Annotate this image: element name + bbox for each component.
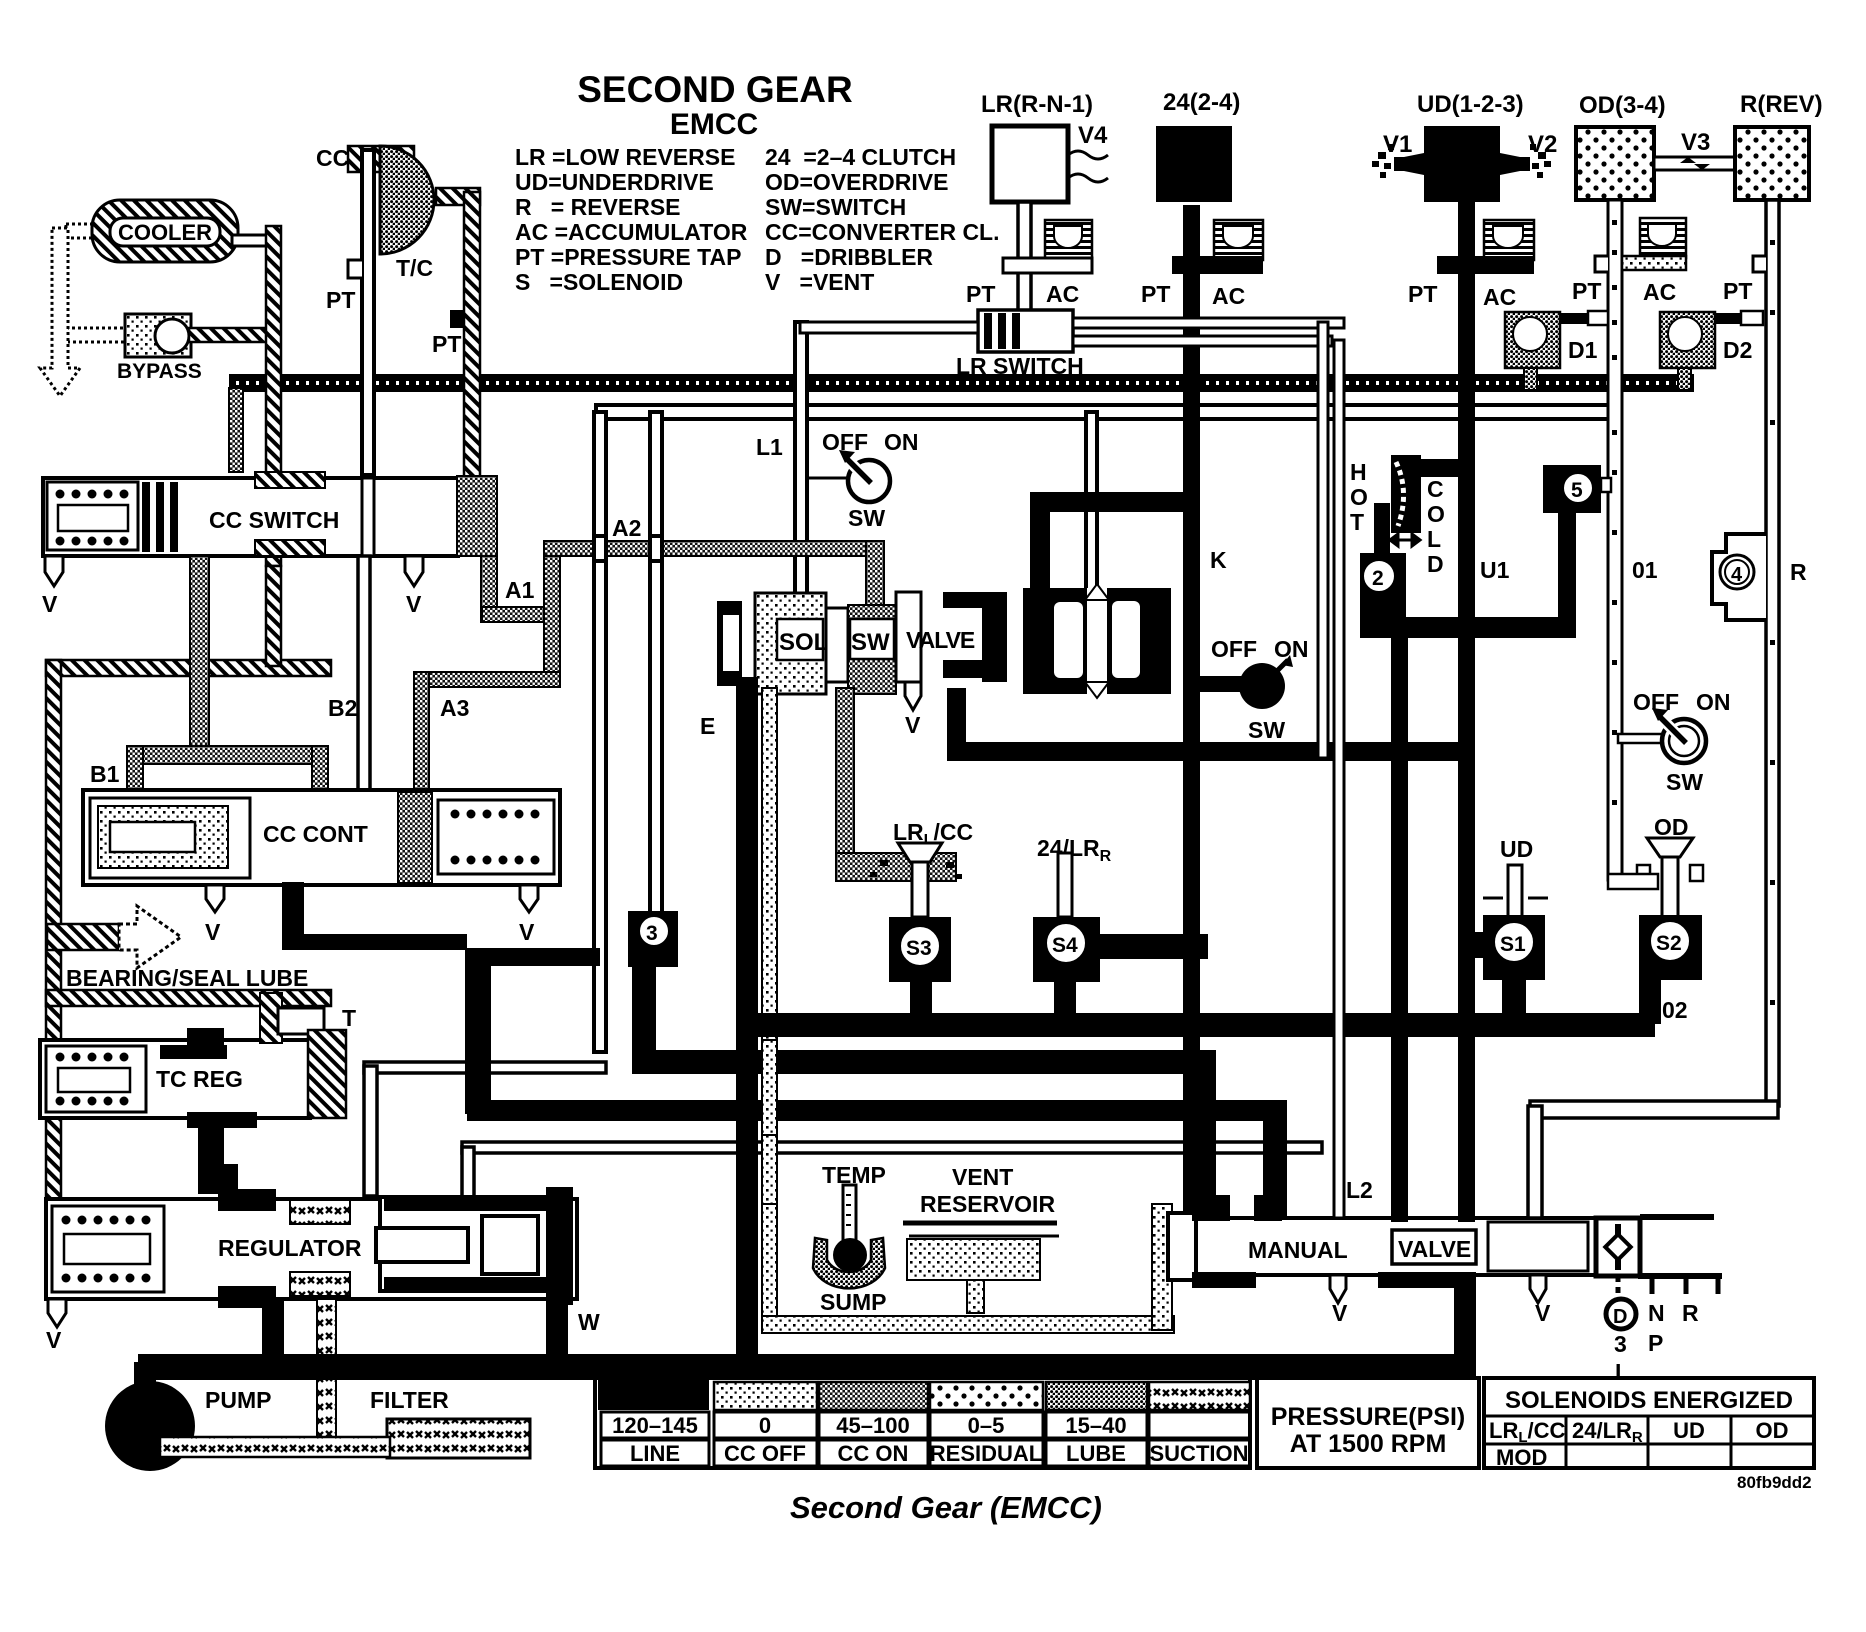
wire hatched elbow CC to T/C	[348, 146, 414, 172]
svg-text:P: P	[1648, 1330, 1663, 1356]
wire W output to pump bus	[546, 1299, 568, 1357]
svg-text:UD=UNDERDRIVE: UD=UNDERDRIVE	[515, 169, 714, 195]
svg-text:V: V	[519, 919, 535, 945]
component LR SWITCH	[978, 310, 1073, 352]
accumulator AC (OD)	[1640, 218, 1686, 258]
svg-text:UD(1-2-3): UD(1-2-3)	[1417, 91, 1524, 118]
accumulator AC (LR)	[1045, 220, 1092, 260]
wire S2 output down-left	[1639, 980, 1661, 1024]
pin pressure tap PT on CC pipe	[348, 260, 362, 278]
component thermometer	[843, 1185, 856, 1243]
svg-text:AC: AC	[1483, 284, 1516, 310]
component solenoid valve assembly SOL SW VALVE	[717, 601, 742, 686]
component OD clutch box (dotted)	[1576, 127, 1654, 200]
wire A2 checker line to solenoid valve	[544, 541, 880, 556]
svg-text:PT: PT	[1141, 281, 1170, 307]
svg-text:24 =2–4 CLUTCH: 24 =2–4 CLUTCH	[765, 144, 956, 170]
svg-text:4: 4	[1731, 564, 1743, 586]
wire selector top line	[1640, 1214, 1714, 1220]
svg-text:PT: PT	[966, 281, 995, 307]
wire R column white pipe down	[1766, 200, 1779, 1106]
svg-text:45–100: 45–100	[836, 1413, 909, 1438]
svg-text:T: T	[1350, 509, 1364, 535]
wire V3 neck between OD and R boxes	[1654, 157, 1735, 170]
wire main pump pressure bus (thick black)	[138, 1354, 1476, 1380]
wire Z line thin pipe to CC CONT loop	[364, 1062, 606, 1073]
svg-text:BEARING/SEAL LUBE: BEARING/SEAL LUBE	[66, 965, 308, 991]
wire Y port vertical	[462, 1147, 474, 1209]
svg-text:SW=SWITCH: SW=SWITCH	[765, 194, 906, 220]
svg-text:B2: B2	[328, 695, 357, 721]
component valve block right (spools)	[1023, 588, 1171, 694]
svg-text:ON: ON	[1274, 636, 1309, 662]
wire collector bus E/S3/S4/S1/S2 outputs	[738, 1013, 1655, 1037]
wire S1 output down	[1502, 980, 1526, 1024]
svg-text:OD(3-4): OD(3-4)	[1579, 92, 1666, 119]
wire S4 output right to K line	[1100, 934, 1208, 959]
svg-text:2: 2	[1372, 567, 1384, 590]
svg-text:AT 1500 RPM: AT 1500 RPM	[1290, 1430, 1447, 1458]
svg-text:VENT: VENT	[952, 1164, 1013, 1190]
svg-text:AC: AC	[1046, 281, 1079, 307]
svg-text:SW: SW	[1666, 769, 1703, 795]
svg-text:CC OFF: CC OFF	[724, 1441, 806, 1466]
svg-text:PT: PT	[326, 287, 355, 313]
svg-text:LINE: LINE	[630, 1441, 680, 1466]
component CC SWITCH valve	[43, 478, 458, 556]
wire dotted feeder from bus down to CC SWITCH	[229, 388, 243, 472]
solenoid S1	[1508, 865, 1522, 917]
svg-text:S =SOLENOID: S =SOLENOID	[515, 269, 683, 295]
vent V below CC SWITCH right	[405, 556, 423, 586]
wire node5 stub to 01 column	[1601, 478, 1611, 492]
svg-text:COOLER: COOLER	[118, 220, 212, 245]
svg-text:S3: S3	[906, 937, 932, 960]
wire LR SWITCH left pipe to L1	[800, 322, 978, 333]
svg-text:T/C: T/C	[396, 255, 433, 281]
svg-text:S1: S1	[1500, 933, 1526, 956]
svg-text:W: W	[578, 1309, 600, 1335]
wire secondary bus (white pipe)	[596, 405, 1612, 419]
svg-text:K: K	[1210, 547, 1227, 573]
component BEARING/SEAL LUBE arrow	[47, 924, 119, 950]
svg-text:15–40: 15–40	[1065, 1413, 1126, 1438]
svg-text:H: H	[1350, 459, 1367, 485]
wire main line-pressure bus (dark, speckled)	[229, 374, 1694, 392]
component TC REG right hatched block	[308, 1030, 346, 1118]
svg-text:PT: PT	[1572, 278, 1601, 304]
wire CC CONT output black pipe to loop	[282, 882, 304, 950]
wire white pipe from bus2 down to valve block right	[1086, 412, 1097, 590]
vent V below valve assembly	[905, 682, 921, 710]
wire E thick black line down	[736, 677, 758, 1367]
svg-text:SW: SW	[1248, 717, 1285, 743]
wire hatched pipe bypass to vertical	[189, 328, 269, 342]
svg-text:R = REVERSE: R = REVERSE	[515, 194, 681, 220]
svg-text:TC REG: TC REG	[156, 1066, 243, 1092]
svg-text:80fb9dd2: 80fb9dd2	[1737, 1473, 1812, 1492]
svg-text:D1: D1	[1568, 337, 1598, 363]
component reservoir tank	[903, 1221, 1057, 1226]
svg-text:V: V	[42, 591, 58, 617]
svg-text:V =VENT: V =VENT	[765, 269, 874, 295]
node 4 bracket on R line	[1712, 534, 1766, 620]
wire OD/01 column (dotted pipe)	[1608, 200, 1622, 880]
svg-text:RESIDUAL: RESIDUAL	[930, 1441, 1042, 1466]
svg-text:OD=OVERDRIVE: OD=OVERDRIVE	[765, 169, 948, 195]
pin PT tap on R column	[1753, 256, 1766, 272]
component REGULATOR valve	[46, 1199, 577, 1299]
wire stipple pipe down to reservoir	[762, 688, 777, 1208]
svg-text:MOD: MOD	[1496, 1445, 1547, 1470]
svg-text:SW: SW	[848, 505, 885, 531]
wire suction strip pump to filter	[160, 1437, 390, 1457]
component CC SWITCH right checker block	[457, 476, 497, 556]
svg-text:5: 5	[1571, 479, 1583, 502]
svg-text:0–5: 0–5	[968, 1413, 1005, 1438]
svg-text:AC: AC	[1643, 279, 1676, 305]
svg-text:V4: V4	[1078, 122, 1108, 149]
wire node3 output black L (line C)	[632, 967, 656, 1074]
wire dotted pipe top to cooler	[66, 224, 96, 238]
component T connector white box	[278, 1008, 324, 1034]
svg-text:O: O	[1350, 484, 1368, 510]
node 2	[1416, 459, 1458, 477]
node 5	[1543, 465, 1601, 513]
svg-text:3: 3	[1614, 1331, 1627, 1357]
wire checker pipe SW section down to S3 funnel	[836, 688, 854, 868]
svg-text:V3: V3	[1681, 129, 1710, 156]
wire CC white pipe down to CC SWITCH	[362, 150, 374, 475]
accumulator AC (UD)	[1484, 220, 1534, 260]
svg-text:SOL: SOL	[779, 629, 828, 656]
component MANUAL VALVE	[1168, 1218, 1638, 1275]
svg-text:O: O	[1427, 501, 1445, 527]
component COOLER	[92, 200, 238, 262]
wire stipple pipe overpass	[762, 1040, 777, 1135]
svg-text:V1: V1	[1383, 131, 1412, 158]
svg-text:CC: CC	[316, 145, 349, 171]
svg-text:PRESSURE(PSI): PRESSURE(PSI)	[1271, 1403, 1465, 1431]
dribbler D2	[1660, 312, 1715, 368]
svg-text:UD: UD	[1500, 836, 1533, 862]
solenoid S4	[1058, 853, 1072, 917]
wire vertical white pipe to node 3	[650, 412, 662, 914]
wire node2 line down to manual valve	[1391, 630, 1408, 1222]
wire hatched bearing lube pipe	[46, 990, 331, 1006]
wire Z port vertical	[364, 1066, 377, 1196]
svg-text:B1: B1	[90, 761, 120, 787]
pin pressure tap PT on T/C vertical	[450, 310, 465, 328]
svg-text:LR(R-N-1): LR(R-N-1)	[981, 91, 1093, 118]
wire thin pipe down (ends at valve loop)	[1318, 322, 1328, 758]
svg-text:AC: AC	[1212, 283, 1245, 309]
svg-text:R: R	[1682, 1300, 1699, 1326]
component manual valve black ports	[1192, 1195, 1476, 1358]
wire L1 white pipe down to solenoid valve	[795, 322, 807, 594]
svg-text:PT: PT	[432, 331, 461, 357]
wire LR SWITCH right pipes	[1073, 318, 1344, 328]
svg-text:V: V	[1332, 1300, 1348, 1326]
wire suction xhatch vertical	[317, 1299, 336, 1439]
svg-text:OFF: OFF	[1211, 636, 1257, 662]
wire A1 checker pipe from CC SWITCH to junction	[481, 556, 497, 622]
svg-text:CC=CONVERTER CL.: CC=CONVERTER CL.	[765, 219, 1000, 245]
component R clutch box (dotted)	[1735, 127, 1809, 200]
component 24 clutch box (black)	[1156, 126, 1232, 202]
component CC CONT loop black channel	[465, 948, 491, 1114]
svg-text:U1: U1	[1480, 557, 1510, 583]
svg-text:120–145: 120–145	[612, 1413, 698, 1438]
component vent reservoir container	[762, 1204, 777, 1330]
wire black loop valve top to K line	[1030, 492, 1198, 592]
svg-text:D: D	[1613, 1306, 1627, 1328]
svg-text:FILTER: FILTER	[370, 1387, 449, 1413]
wire Y line thin pipe across page	[462, 1142, 1322, 1153]
wire B2 pipe down to CC CONT	[358, 556, 370, 792]
component check valve box	[1596, 1218, 1640, 1276]
svg-text:VALVE: VALVE	[1398, 1236, 1471, 1262]
svg-text:BYPASS: BYPASS	[117, 360, 202, 383]
svg-text:L: L	[1427, 526, 1441, 552]
svg-text:L2: L2	[1346, 1177, 1373, 1203]
svg-text:OD: OD	[1654, 814, 1689, 840]
svg-text:CC SWITCH: CC SWITCH	[209, 507, 339, 533]
wire A3 checker line left then down to CC CONT	[414, 672, 560, 687]
svg-text:PUMP: PUMP	[205, 1387, 271, 1413]
wire K thick line (24 clutch) down to manual valve	[1183, 205, 1200, 1227]
wire dotted pipe left of cooler with down arrow	[40, 228, 80, 396]
svg-text:LR SWITCH: LR SWITCH	[956, 353, 1084, 379]
svg-text:A2: A2	[612, 515, 641, 541]
component UD clutch box (black)	[1424, 126, 1500, 202]
svg-text:D2: D2	[1723, 337, 1752, 363]
selector D circle	[1616, 1276, 1621, 1300]
svg-text:PT =PRESSURE TAP: PT =PRESSURE TAP	[515, 244, 741, 270]
svg-text:EMCC: EMCC	[670, 108, 758, 141]
component regulator right spool	[380, 1197, 550, 1291]
svg-text:ON: ON	[884, 429, 919, 455]
solenoids energized table	[1484, 1378, 1814, 1468]
vent V below CC CONT left	[206, 885, 224, 912]
svg-text:S4: S4	[1052, 934, 1078, 957]
svg-text:V: V	[205, 919, 221, 945]
svg-text:A1: A1	[505, 577, 535, 603]
component CC CONT valve	[83, 790, 560, 885]
svg-text:T: T	[342, 1005, 356, 1031]
svg-text:C: C	[1427, 476, 1444, 502]
svg-text:PT: PT	[1723, 278, 1752, 304]
svg-text:Second Gear (EMCC): Second Gear (EMCC)	[790, 1490, 1102, 1525]
wire hatched vertical pipe (cooler line) down through bus	[266, 226, 281, 566]
svg-text:V: V	[1535, 1300, 1551, 1326]
svg-text:N: N	[1648, 1300, 1665, 1326]
solenoid S2 with funnel	[1647, 838, 1693, 857]
vent V below CC CONT right	[520, 885, 538, 912]
svg-text:MANUAL: MANUAL	[1248, 1237, 1348, 1263]
svg-text:CC ON: CC ON	[838, 1441, 909, 1466]
wire line D thick black to manual valve	[467, 1100, 1287, 1121]
wire hatched connector T/C to right vertical	[436, 188, 480, 205]
svg-text:LUBE: LUBE	[1066, 1441, 1126, 1466]
svg-text:AC =ACCUMULATOR: AC =ACCUMULATOR	[515, 219, 748, 245]
wire L2 thin pipe down to manual valve	[1334, 340, 1344, 1218]
wire TC REG output black pipe to regulator	[198, 1128, 238, 1194]
wire S4 output down	[1054, 982, 1076, 1024]
wire UD thick line down to manual valve	[1458, 202, 1475, 1222]
wire 01 column jog to S2	[1608, 874, 1658, 889]
wire B1 checker pipe from CC SWITCH to CC CONT	[190, 556, 209, 752]
svg-text:SUMP: SUMP	[820, 1289, 886, 1315]
svg-text:UD: UD	[1673, 1418, 1705, 1443]
component TC REG valve	[40, 1040, 310, 1118]
svg-text:L1: L1	[756, 434, 783, 460]
svg-text:ON: ON	[1696, 689, 1731, 715]
wire hatched long pipe left (to bearing lube)	[46, 660, 331, 676]
vent V below CC SWITCH left	[45, 556, 63, 586]
svg-text:SECOND GEAR: SECOND GEAR	[577, 69, 852, 110]
svg-text:PT: PT	[1408, 281, 1437, 307]
vent V below manual valve	[1330, 1275, 1346, 1303]
wire S3 output	[910, 982, 932, 1037]
svg-text:R(REV): R(REV)	[1740, 91, 1823, 118]
svg-text:LRL/CC: LRL/CC	[1489, 1418, 1566, 1446]
solenoid S3 with funnel	[870, 860, 962, 879]
wire regulator bottom-left output to pump bus	[262, 1299, 284, 1357]
svg-text:24(2-4): 24(2-4)	[1163, 89, 1240, 116]
svg-text:E: E	[700, 713, 715, 739]
wire hatched vertical right of T/C down to A1	[464, 192, 480, 480]
svg-text:01: 01	[1632, 557, 1658, 583]
pressure note box	[1257, 1378, 1479, 1468]
component V4 vent box	[992, 126, 1068, 202]
svg-text:A3: A3	[440, 695, 469, 721]
component T/C torque converter half-disc	[380, 146, 434, 254]
dribbler D1	[1505, 312, 1560, 368]
svg-text:SW: SW	[851, 629, 890, 656]
wire vertical white pipe from bus2 left end down	[594, 412, 606, 1052]
svg-text:D: D	[1427, 551, 1444, 577]
svg-text:CC CONT: CC CONT	[263, 821, 368, 847]
svg-text:S2: S2	[1656, 932, 1682, 955]
wire R pipe horizontal to manual valve	[1530, 1101, 1778, 1118]
svg-text:V: V	[406, 591, 422, 617]
wire dotted pipe bypass left	[66, 328, 130, 342]
svg-text:RESERVOIR: RESERVOIR	[920, 1191, 1055, 1217]
component sump dish	[813, 1238, 885, 1288]
vent V below regulator	[48, 1299, 66, 1327]
wire LR white pipe down to LR switch	[1018, 202, 1031, 314]
svg-text:SOLENOIDS ENERGIZED: SOLENOIDS ENERGIZED	[1505, 1387, 1793, 1414]
legend table pressure patterns	[595, 1378, 1250, 1468]
wire black loop valve bottom across to UD line	[947, 688, 1475, 761]
svg-text:R: R	[1790, 559, 1807, 585]
svg-text:VALVE: VALVE	[906, 627, 975, 653]
accumulator AC (24)	[1214, 220, 1263, 260]
svg-text:LR =LOW REVERSE: LR =LOW REVERSE	[515, 144, 735, 170]
svg-text:REGULATOR: REGULATOR	[218, 1235, 362, 1261]
svg-text:OD: OD	[1756, 1418, 1789, 1443]
component BYPASS valve	[125, 314, 191, 357]
pin PT tap on OD column	[1595, 256, 1608, 272]
component PUMP black circle	[105, 1381, 195, 1471]
svg-text:02: 02	[1662, 997, 1688, 1023]
svg-text:V: V	[905, 712, 921, 738]
wire node2 loop to node5 and UD line	[1373, 617, 1576, 638]
wire white pipe cooler right to vertical hatched pipe	[232, 235, 270, 246]
wire B2/CC pipe through switch	[362, 478, 374, 556]
node 3	[628, 911, 678, 967]
svg-text:0: 0	[759, 1413, 771, 1438]
wire white pipes crossing A2 line	[594, 536, 606, 561]
svg-text:V: V	[46, 1327, 62, 1353]
svg-text:SUCTION: SUCTION	[1150, 1441, 1249, 1466]
svg-text:D =DRIBBLER: D =DRIBBLER	[765, 244, 933, 270]
svg-text:3: 3	[646, 922, 658, 945]
wire selector gate line with ticks	[1638, 1273, 1722, 1279]
